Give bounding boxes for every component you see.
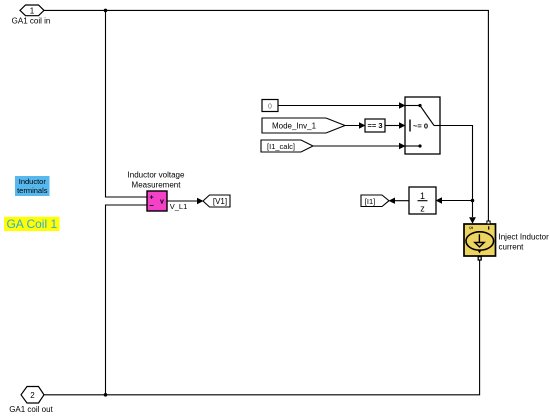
goto I1 — [361, 195, 389, 207]
voltage measurement V_L1 — [147, 191, 167, 211]
svg-text:GA1 coil out: GA1 coil out — [9, 405, 53, 414]
pin square top right port — [487, 221, 490, 224]
compare == 3 — [365, 119, 385, 132]
svg-text:[V1]: [V1] — [213, 197, 227, 206]
svg-text:1: 1 — [420, 191, 425, 201]
node junction bottom — [104, 393, 108, 397]
node junction right — [471, 199, 475, 203]
switch — [405, 97, 440, 154]
svg-text:−: − — [149, 201, 154, 210]
constant 0 — [262, 100, 278, 112]
node junction top — [104, 9, 108, 13]
svg-text:z: z — [420, 204, 425, 214]
svg-text:Inductor: Inductor — [19, 177, 47, 186]
svg-text:GA Coil 1: GA Coil 1 — [6, 217, 57, 231]
svg-text:2: 2 — [30, 391, 35, 400]
goto V1 — [203, 195, 230, 207]
wire switch output down to s — [440, 126, 473, 218]
svg-text:Inductor voltage: Inductor voltage — [128, 171, 185, 180]
svg-text:Measurement: Measurement — [132, 181, 182, 190]
svg-text:~= 0: ~= 0 — [413, 121, 428, 130]
svg-text:v: v — [160, 199, 164, 206]
wire I1_calc to switch in3 — [313, 145, 401, 147]
svg-text:1: 1 — [30, 6, 35, 15]
inport 1 — [20, 5, 44, 16]
wire minus terminal down to bottom rail — [106, 205, 148, 395]
from I1_calc — [261, 140, 313, 152]
controlled current source Inject Inductor current — [464, 224, 496, 256]
pin square bottom port — [478, 257, 481, 260]
svg-text:Mode_Inv_1: Mode_Inv_1 — [272, 121, 317, 130]
wire compare to switch in2 — [385, 125, 401, 127]
unit delay 1/z — [409, 187, 436, 214]
svg-text:GA1 coil in: GA1 coil in — [12, 17, 51, 26]
wire top rail — [44, 10, 488, 221]
svg-text:terminals: terminals — [17, 186, 48, 195]
svg-text:current: current — [499, 243, 525, 252]
svg-text:0: 0 — [268, 103, 272, 110]
wire junction to unit delay — [440, 200, 473, 202]
wire from tag to compare — [345, 125, 362, 127]
wire left drop to plus terminal — [106, 10, 148, 197]
annotation Inductor terminals — [15, 176, 50, 196]
wire bottom rail — [44, 260, 480, 395]
outport 2 — [21, 387, 44, 404]
from Mode_Inv_1 — [262, 118, 345, 133]
svg-text:Inject Inductor: Inject Inductor — [499, 233, 550, 242]
svg-text:[I1_calc]: [I1_calc] — [267, 142, 295, 151]
svg-text:== 3: == 3 — [367, 121, 382, 130]
wire const to switch in1 — [278, 105, 401, 107]
svg-text:[I1]: [I1] — [365, 197, 375, 206]
wire unit delay to I1 — [393, 200, 410, 202]
svg-text:V_L1: V_L1 — [170, 202, 188, 211]
annotation GA Coil 1 — [4, 217, 60, 231]
wire v output to V1 — [167, 200, 200, 202]
